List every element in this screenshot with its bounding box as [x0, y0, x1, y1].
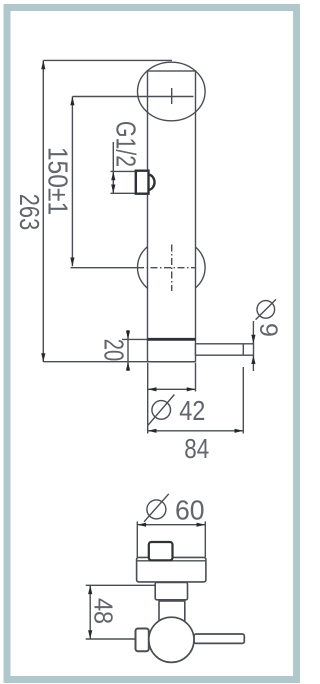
svg-text:42: 42: [179, 396, 205, 426]
svg-text:48: 48: [88, 598, 116, 624]
svg-text:150±1: 150±1: [42, 147, 74, 215]
svg-text:60: 60: [175, 494, 205, 526]
svg-text:263: 263: [13, 194, 44, 230]
svg-text:84: 84: [184, 434, 209, 465]
svg-text:20: 20: [98, 339, 129, 361]
svg-text:9: 9: [254, 323, 282, 337]
svg-text:G1/2: G1/2: [110, 121, 142, 167]
